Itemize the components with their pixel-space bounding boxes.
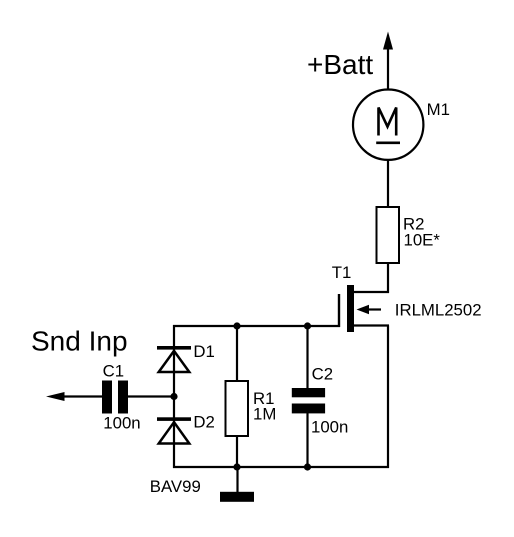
wire	[63, 395, 103, 397]
wire	[236, 326, 238, 381]
svg-text:C2: C2	[312, 365, 333, 384]
diode D2	[157, 417, 191, 443]
bottom rail wire	[173, 466, 389, 468]
svg-text:D2: D2	[193, 412, 214, 431]
svg-text:IRLML2502: IRLML2502	[395, 301, 482, 320]
input arrow	[46, 392, 65, 401]
wire	[387, 263, 389, 293]
svg-text:+Batt: +Batt	[307, 49, 373, 80]
wire ground stub	[236, 467, 238, 492]
resistor R1	[226, 381, 249, 436]
svg-text:C1: C1	[103, 361, 124, 380]
top rail wire	[173, 325, 340, 327]
wire diode string	[173, 325, 175, 468]
wire source down	[387, 326, 389, 469]
power arrow +Batt	[383, 32, 393, 50]
resistor R2	[377, 207, 400, 263]
wire	[306, 326, 308, 389]
svg-text:100n: 100n	[103, 413, 140, 432]
diode D1	[157, 346, 191, 372]
junction dot	[233, 322, 240, 329]
svg-text:D1: D1	[193, 342, 214, 361]
svg-text:BAV99: BAV99	[150, 477, 201, 496]
ground	[220, 492, 254, 502]
transistor T1	[339, 285, 389, 332]
wire	[387, 160, 389, 208]
wire	[236, 436, 238, 468]
svg-text:Snd Inp: Snd Inp	[31, 325, 128, 356]
svg-text:100n: 100n	[311, 418, 348, 437]
capacitor C2	[292, 388, 325, 413]
junction dot	[170, 393, 177, 400]
wire	[387, 48, 389, 89]
svg-text:M1: M1	[427, 100, 450, 119]
svg-text:T1: T1	[332, 263, 352, 282]
junction dot	[304, 463, 311, 470]
svg-text:10E*: 10E*	[404, 231, 441, 250]
motor M1	[353, 90, 423, 160]
capacitor C1	[102, 381, 128, 414]
wire	[306, 413, 308, 468]
junction dot	[233, 463, 240, 470]
svg-text:1M: 1M	[253, 404, 276, 423]
wire	[128, 395, 176, 397]
junction dot	[304, 322, 311, 329]
